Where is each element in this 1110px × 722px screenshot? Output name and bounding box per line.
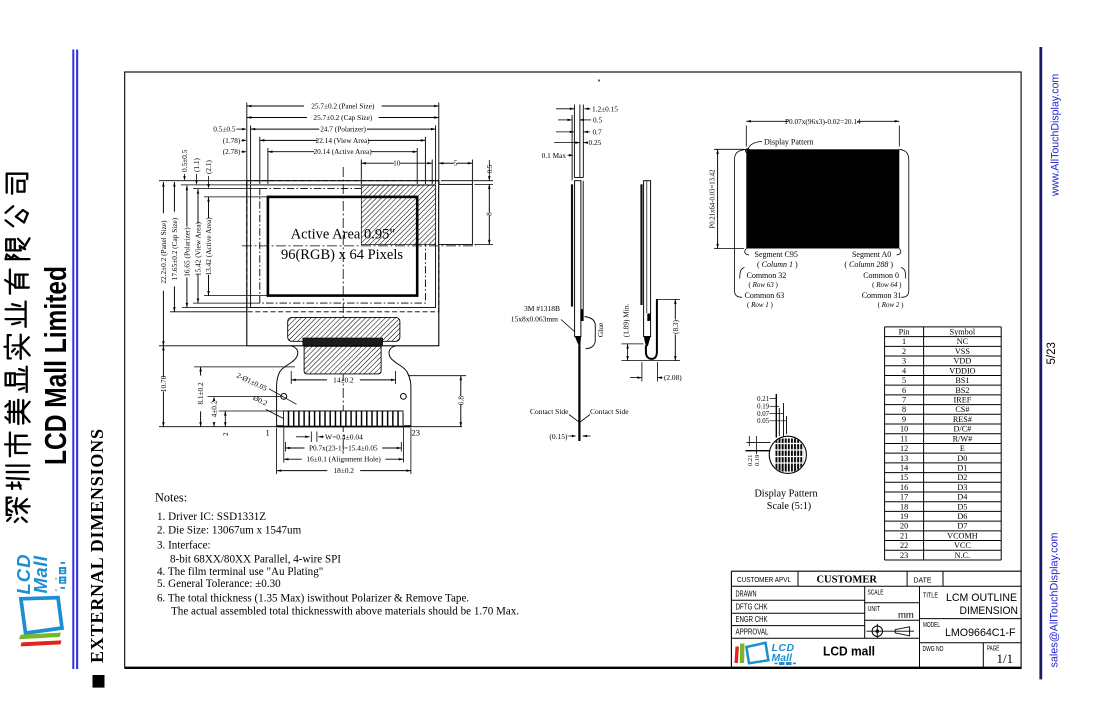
svg-text:( Row 2 ): ( Row 2 ): [878, 301, 905, 309]
svg-text:LCM OUTLINE: LCM OUTLINE: [946, 592, 1017, 604]
svg-text:1/1: 1/1: [997, 651, 1014, 666]
svg-text:21: 21: [900, 531, 908, 540]
pin table: [885, 326, 1002, 328]
svg-text:8.1±0.2: 8.1±0.2: [196, 382, 205, 405]
svg-text:10: 10: [900, 425, 908, 434]
svg-text:1: 1: [266, 428, 270, 438]
svg-text:3M #1318B: 3M #1318B: [524, 304, 560, 313]
svg-text:96(RGB) x 64 Pixels: 96(RGB) x 64 Pixels: [281, 247, 403, 263]
svg-text:DIMENSION: DIMENSION: [960, 605, 1019, 617]
dim P0.7: [285, 447, 304, 449]
svg-text:Common 32: Common 32: [747, 271, 787, 280]
svg-text:W=0.4±0.04: W=0.4±0.04: [325, 432, 363, 441]
svg-text:Common 31: Common 31: [862, 291, 902, 300]
svg-text:CUSTOMER APVL: CUSTOMER APVL: [737, 577, 791, 584]
dim 22.2 panel size vertical: [162, 182, 164, 213]
svg-text:Common 0: Common 0: [863, 271, 899, 280]
svg-text:0.25: 0.25: [589, 138, 602, 147]
dim 24.7 polarizer: [251, 128, 320, 130]
svg-text:13.42 (Active Area): 13.42 (Active Area): [204, 217, 213, 276]
dim P0.07 top: [746, 120, 788, 122]
side view 2 taper: [644, 337, 651, 347]
stray dot: [598, 79, 600, 81]
detail dims left: [747, 441, 771, 443]
dim 10: [361, 162, 393, 164]
dim (2.08): [641, 362, 643, 382]
svg-text:15: 15: [900, 473, 908, 482]
svg-text:(1.78): (1.78): [223, 136, 241, 145]
svg-text:CS#: CS#: [955, 405, 969, 414]
svg-text:3: 3: [902, 357, 906, 366]
dim (1.89) Min: [627, 344, 629, 361]
drawing frame: [125, 72, 1021, 668]
svg-text:8: 8: [902, 405, 906, 414]
svg-text:VDD: VDD: [954, 357, 972, 366]
svg-text:EXTERNAL DIMENSIONS: EXTERNAL DIMENSIONS: [87, 428, 107, 663]
svg-text:1. Driver IC: SSD1331Z: 1. Driver IC: SSD1331Z: [157, 511, 266, 523]
fpc left extension lines: [194, 366, 295, 368]
left extension lines: [159, 180, 247, 182]
svg-text:R/W#: R/W#: [953, 434, 973, 443]
fpc right dim 6.8: [460, 376, 462, 396]
svg-text:15x8x0.063mm: 15x8x0.063mm: [511, 315, 558, 324]
dim 0.5 right tab: [441, 180, 493, 182]
svg-text:(0.15): (0.15): [549, 432, 568, 441]
svg-text:APPROVAL: APPROVAL: [736, 628, 770, 637]
side view 2 glass stack: [640, 184, 642, 305]
fpc body outline: [277, 346, 298, 427]
black square bullet: [93, 675, 105, 688]
svg-text:25.7±0.2 (Cap Size): 25.7±0.2 (Cap Size): [313, 113, 372, 122]
svg-text:7: 7: [902, 395, 906, 404]
svg-text:5: 5: [902, 376, 906, 385]
svg-text:BS1: BS1: [955, 376, 969, 385]
svg-text:22.14 (View Area): 22.14 (View Area): [316, 136, 371, 145]
display pattern black rectangle: [746, 149, 899, 248]
detail dims above: [775, 394, 777, 438]
svg-text:Common 63: Common 63: [745, 291, 785, 300]
alignment holes: [281, 394, 287, 400]
svg-text:Display Pattern: Display Pattern: [764, 137, 814, 146]
svg-text:D5: D5: [957, 502, 967, 511]
svg-text:16±0.1 (Alignment Hole): 16±0.1 (Alignment Hole): [306, 455, 381, 464]
svg-text:15.42 (View Area): 15.42 (View Area): [193, 221, 202, 276]
svg-text:www.AllTouchDisplay.com: www.AllTouchDisplay.com: [1050, 74, 1062, 197]
svg-text:0.21: 0.21: [757, 396, 769, 403]
side view 1 main stack: [571, 184, 573, 306]
svg-text:22: 22: [900, 541, 908, 550]
front view: panel outline (solid): [247, 181, 439, 346]
svg-text:DRAWN: DRAWN: [736, 590, 757, 599]
side view 2 fpc fold: [646, 299, 657, 359]
svg-text:SCALE: SCALE: [868, 590, 884, 597]
dim 18: [277, 470, 328, 472]
svg-text:P0.7x(23-1)=15.4±0.05: P0.7x(23-1)=15.4±0.05: [309, 443, 378, 452]
svg-text:Pin: Pin: [899, 328, 910, 337]
svg-text:25.7±0.2 (Panel Size): 25.7±0.2 (Panel Size): [311, 101, 375, 110]
svg-text:VCOMH: VCOMH: [947, 531, 978, 540]
svg-text:CUSTOMER: CUSTOMER: [816, 575, 877, 586]
fpc contact band dark: [303, 338, 383, 346]
svg-text:0.19: 0.19: [754, 455, 761, 466]
svg-text:2. Die Size: 13067um x 1547um: 2. Die Size: 13067um x 1547um: [157, 525, 302, 537]
glue bracket + label: [585, 317, 596, 349]
svg-text:DATE: DATE: [914, 576, 932, 585]
svg-text:( Row 1 ): ( Row 1 ): [747, 301, 774, 309]
title block logo: [735, 642, 797, 665]
svg-text:0.7: 0.7: [593, 127, 602, 136]
navy rule right: [1039, 47, 1042, 679]
active area (thick): [268, 197, 417, 296]
dim 5: [439, 162, 454, 164]
cap glass outline (dashed): [247, 181, 439, 312]
svg-text:Notes:: Notes:: [155, 491, 187, 505]
svg-text:( Column 288 ): ( Column 288 ): [844, 260, 893, 269]
svg-text:D7: D7: [957, 522, 967, 531]
blue double rule left: [72, 50, 74, 670]
svg-text:D1: D1: [957, 463, 967, 472]
svg-text:6: 6: [902, 386, 906, 395]
svg-text:3. Interface:: 3. Interface:: [157, 539, 211, 551]
svg-text:0.1 Max: 0.1 Max: [542, 151, 567, 160]
svg-text:0.5±0.5: 0.5±0.5: [180, 149, 189, 172]
svg-text:0.5±0.5: 0.5±0.5: [213, 125, 236, 134]
svg-text:Scale (5:1): Scale (5:1): [767, 501, 811, 512]
svg-text:16.65 (Polarizer): 16.65 (Polarizer): [182, 227, 191, 277]
svg-text:1.2±0.15: 1.2±0.15: [592, 104, 618, 113]
svg-text:23: 23: [900, 551, 908, 560]
svg-text:D3: D3: [957, 483, 967, 492]
dim (8.3): [674, 299, 676, 319]
svg-text:16: 16: [900, 483, 908, 492]
segment/common labels right: [897, 249, 901, 256]
svg-text:VSS: VSS: [955, 347, 970, 356]
title block: [731, 570, 1021, 572]
dim 25.7 cap size: [247, 117, 307, 119]
svg-text:Contact Side: Contact Side: [530, 407, 569, 416]
svg-text:Contact Side: Contact Side: [590, 407, 629, 416]
svg-text:N.C.: N.C.: [955, 551, 970, 560]
svg-text:11: 11: [900, 434, 908, 443]
svg-text:MODEL: MODEL: [923, 622, 940, 629]
svg-text:P0.07x(96x3)-0.02=20.14: P0.07x(96x3)-0.02=20.14: [785, 117, 861, 126]
svg-text:20: 20: [900, 522, 908, 531]
dim W=0.4: [296, 436, 310, 438]
svg-text:sales@AllTouchDisplay.com: sales@AllTouchDisplay.com: [1049, 533, 1061, 668]
svg-text:The actual assembled total thi: The actual assembled total thicknesswith…: [171, 606, 519, 618]
svg-text:6. The total thickness (1.35 M: 6. The total thickness (1.35 Max) iswith…: [157, 592, 469, 604]
dim 17.65 cap size vertical: [173, 182, 175, 212]
svg-text:0.21: 0.21: [747, 455, 754, 466]
svg-text:17: 17: [900, 493, 908, 502]
svg-text:1: 1: [902, 337, 906, 346]
svg-text:24.7 (Polarizer): 24.7 (Polarizer): [320, 125, 366, 134]
svg-text:5. General Tolerance: ±0.30: 5. General Tolerance: ±0.30: [157, 578, 281, 590]
svg-text:0.19: 0.19: [757, 404, 769, 411]
side view 1 bottom taper + fpc line: [575, 337, 581, 346]
svg-text:mm: mm: [898, 610, 914, 621]
dim 16 alignment hole: [284, 458, 302, 460]
view area (dash-dot): [260, 189, 426, 304]
svg-text:D2: D2: [957, 473, 967, 482]
svg-text:BS2: BS2: [955, 386, 969, 395]
projection symbol: [872, 626, 882, 636]
svg-text:5/23: 5/23: [1046, 342, 1058, 364]
svg-text:18: 18: [900, 502, 908, 511]
svg-text:0.5: 0.5: [487, 164, 494, 173]
segment/common labels left: [745, 249, 749, 256]
svg-text:18±0.2: 18±0.2: [334, 466, 355, 475]
LCD Mall logo sidebar (rotated): [13, 553, 66, 646]
svg-text:ENGR CHK: ENGR CHK: [736, 615, 769, 624]
display pattern hatch region: [361, 185, 435, 244]
svg-text:2: 2: [221, 432, 230, 436]
gray band behind pins: [283, 413, 404, 426]
svg-text:LMO9664C1-F: LMO9664C1-F: [945, 627, 1016, 639]
svg-text:VCC: VCC: [954, 541, 971, 550]
fpc bottom edge thick: [277, 425, 411, 427]
svg-text:5: 5: [454, 159, 458, 168]
svg-text:NC: NC: [957, 337, 969, 346]
svg-text:( Row 63 ): ( Row 63 ): [749, 281, 779, 289]
svg-text:Glue: Glue: [596, 322, 605, 337]
fpc left dims: [162, 346, 164, 377]
svg-text:10.78: 10.78: [159, 375, 168, 392]
svg-text:RES#: RES#: [953, 415, 972, 424]
svg-text:13: 13: [900, 454, 908, 463]
svg-text:Segment C95: Segment C95: [755, 250, 798, 259]
Chinese company name (drawn strokes): [7, 498, 30, 522]
svg-text:(8.3): (8.3): [671, 319, 680, 334]
svg-text:LCD mall: LCD mall: [823, 645, 875, 659]
svg-text:VDDIO: VDDIO: [949, 366, 975, 375]
svg-text:Segment A0: Segment A0: [852, 250, 891, 259]
svg-text:(2.1): (2.1): [204, 159, 213, 174]
below extension lines: [283, 428, 285, 463]
svg-text:( Column 1 ): ( Column 1 ): [757, 260, 798, 269]
svg-text:2: 2: [902, 347, 906, 356]
svg-text:0.07: 0.07: [757, 411, 769, 418]
svg-text:17.65±0.2 (Cap Size): 17.65±0.2 (Cap Size): [170, 217, 179, 280]
svg-text:Symbol: Symbol: [950, 328, 976, 337]
svg-text:DWG NO: DWG NO: [923, 646, 944, 653]
svg-text:4. The film terminal use "Au P: 4. The film terminal use "Au Plating": [157, 566, 323, 578]
svg-text:23: 23: [412, 428, 421, 438]
svg-text:19: 19: [900, 512, 908, 521]
centerline vertical: [342, 167, 344, 455]
svg-text:(2.78): (2.78): [223, 147, 241, 156]
svg-text:D0: D0: [957, 454, 967, 463]
svg-text:0.05: 0.05: [757, 418, 769, 425]
svg-text:D/C#: D/C#: [954, 425, 972, 434]
svg-text:E: E: [960, 444, 965, 453]
svg-text:4: 4: [902, 366, 906, 375]
svg-text:9: 9: [902, 415, 906, 424]
svg-text:8: 8: [487, 212, 494, 216]
svg-text:TITLE: TITLE: [923, 593, 938, 600]
svg-text:( Row 64 ): ( Row 64 ): [872, 281, 902, 289]
centerline horizontal: [242, 245, 476, 247]
fpc bonding region hatched: [288, 317, 400, 341]
svg-text:(2.08): (2.08): [664, 373, 682, 382]
dim 20.14 active area: [268, 151, 314, 153]
svg-text:22.2±0.2 (Panel Size): 22.2±0.2 (Panel Size): [159, 220, 168, 284]
svg-text:D4: D4: [957, 493, 967, 502]
fpc neck hatched: [304, 346, 381, 374]
svg-text:Mall: Mall: [30, 555, 51, 593]
svg-text:D6: D6: [957, 512, 967, 521]
svg-text:8-bit 68XX/80XX Parallel, 4-wi: 8-bit 68XX/80XX Parallel, 4-wire SPI: [170, 554, 341, 566]
svg-text:IREF: IREF: [954, 395, 972, 404]
baseline long: [159, 426, 462, 428]
dim 14: [291, 379, 327, 381]
pins comb: [284, 411, 289, 426]
dim P0.21 left: [717, 149, 719, 248]
svg-text:Display Pattern: Display Pattern: [754, 489, 817, 500]
dim 22.14 view area: [260, 139, 317, 141]
polarizer outline: [251, 185, 436, 308]
dim 13.42 active area vertical: [208, 197, 210, 218]
svg-text:12: 12: [900, 444, 908, 453]
svg-text:14: 14: [900, 463, 908, 472]
svg-text:(1.89) Min.: (1.89) Min.: [622, 304, 631, 338]
side view 1 glass top section: [573, 105, 575, 178]
svg-text:LCD Mall Limited: LCD Mall Limited: [38, 266, 73, 465]
extension lines top: [246, 103, 248, 185]
svg-text:14±0.2: 14±0.2: [333, 375, 354, 384]
svg-text:(1.1): (1.1): [192, 157, 201, 172]
svg-text:0.5: 0.5: [593, 115, 602, 124]
dim 15.42 view area vertical: [197, 189, 199, 224]
svg-text:6.8: 6.8: [456, 396, 465, 405]
svg-text:20.14 (Active Area): 20.14 (Active Area): [313, 147, 372, 156]
svg-text:4±0.2: 4±0.2: [209, 400, 218, 417]
dim 16.65 polarizer vertical: [186, 186, 188, 227]
svg-text:UNIT: UNIT: [868, 606, 881, 613]
dim 8 right tab: [488, 184, 490, 212]
svg-text:P0.21x64-0.03=13.42: P0.21x64-0.03=13.42: [710, 169, 717, 229]
svg-text:10: 10: [393, 159, 401, 168]
svg-text:DFTG CHK: DFTG CHK: [736, 603, 769, 612]
svg-text:- -: - -: [51, 577, 60, 592]
dim 25.7 panel size: [247, 105, 304, 107]
side tab rectangle: [439, 184, 473, 244]
